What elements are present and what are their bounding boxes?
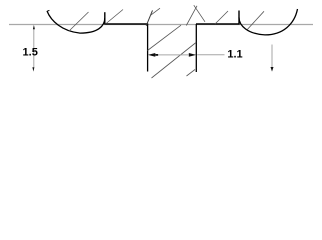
hatch right of rib (215, 11, 228, 24)
dimension 1.1 line (158, 54, 189, 56)
centerline (9, 24, 313, 26)
svg-text:1.5: 1.5 (23, 46, 38, 58)
surface edge right segment (196, 23, 240, 25)
hatch at tick1 (106, 10, 124, 25)
rib hatch upper left (148, 25, 182, 50)
dimension 1.1 arrowhead right (189, 53, 196, 57)
rib hatch long (152, 43, 197, 79)
right reference arrowhead down (271, 67, 274, 72)
hatch at rib left corner outer (146, 10, 152, 25)
left groove arc (47, 11, 105, 33)
hatch on left arc (69, 12, 89, 31)
dimension 1.5 arrowhead down (32, 67, 34, 71)
dimension 1.5 extension line upper (33, 29, 35, 68)
right groove arc (239, 9, 298, 35)
hatch at rib left corner inner (150, 8, 160, 15)
hatch on right arc (247, 11, 264, 29)
dimension 1.1 arrowhead left (148, 53, 155, 57)
tick at left arc inner end (104, 12, 106, 24)
left arc tip flare (47, 10, 49, 11)
svg-text:1.1: 1.1 (227, 49, 242, 61)
hatch at rib right corner rising (186, 6, 197, 26)
rib hatch lower right (187, 70, 196, 77)
dimension 1.5 arrowhead up (33, 25, 35, 29)
tick at right arc inner end (238, 11, 240, 25)
rib right edge (195, 24, 197, 72)
right reference line (271, 45, 273, 68)
rib left edge (147, 24, 149, 72)
dimension 1.1 leader (197, 54, 224, 56)
hatch at rib right corner falling (194, 5, 205, 22)
dimension 1.1 arrow tail left (155, 54, 158, 56)
surface edge left segment (105, 23, 149, 25)
